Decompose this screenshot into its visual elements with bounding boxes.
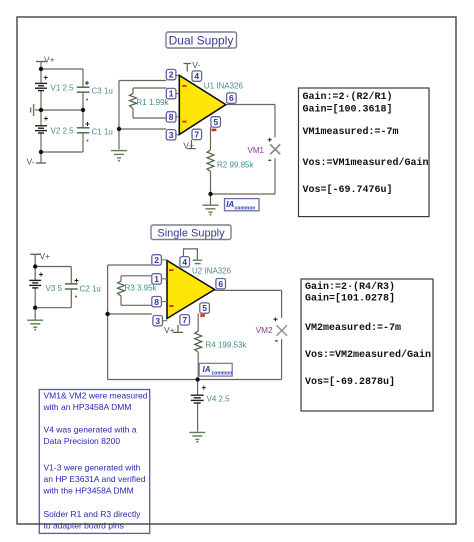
svg-text:6: 6 <box>218 279 223 289</box>
svg-text:1: 1 <box>154 274 159 284</box>
svg-text:R1 1.99k: R1 1.99k <box>137 98 170 107</box>
svg-text:VM1measured:=-7m: VM1measured:=-7m <box>303 126 399 138</box>
svg-text:C1 1u: C1 1u <box>92 128 113 137</box>
svg-text:6: 6 <box>229 93 234 103</box>
svg-text:with the HP3458A DMM: with the HP3458A DMM <box>43 486 134 496</box>
svg-text:V4 2.5: V4 2.5 <box>207 394 231 403</box>
svg-text:R3 3.95k: R3 3.95k <box>125 283 158 292</box>
svg-text:VM1& VM2 were measured: VM1& VM2 were measured <box>44 391 148 401</box>
svg-text:7: 7 <box>194 130 199 140</box>
svg-text:common: common <box>212 370 233 376</box>
svg-text:Vos:=VM1measured/Gain: Vos:=VM1measured/Gain <box>303 157 429 169</box>
svg-text:8: 8 <box>154 297 159 307</box>
svg-text:V-: V- <box>192 60 200 70</box>
svg-text:Dual Supply: Dual Supply <box>169 34 234 48</box>
svg-text:to adapter board pins: to adapter board pins <box>44 520 124 530</box>
svg-text:IA: IA <box>226 200 234 209</box>
svg-text:V+: V+ <box>183 141 194 151</box>
svg-text:VM2measured:=-7m: VM2measured:=-7m <box>305 322 401 334</box>
svg-text:V4 was generated with a: V4 was generated with a <box>44 424 137 434</box>
svg-text:Data Precision 8200: Data Precision 8200 <box>44 436 121 446</box>
svg-text:Vos=[-69.2878u]: Vos=[-69.2878u] <box>305 376 395 388</box>
svg-text:Gain=[101.0278]: Gain=[101.0278] <box>305 293 395 305</box>
svg-text:2: 2 <box>169 70 174 80</box>
svg-text:3: 3 <box>155 316 160 326</box>
svg-text:Gain:=2·(R4/R3): Gain:=2·(R4/R3) <box>305 281 395 293</box>
svg-text:Gain=[100.3618]: Gain=[100.3618] <box>303 104 393 116</box>
svg-text:U2 INA326: U2 INA326 <box>192 266 232 275</box>
svg-text:7: 7 <box>182 315 187 325</box>
svg-text:1: 1 <box>169 89 174 99</box>
svg-text:R2 99.85k: R2 99.85k <box>217 161 254 170</box>
svg-text:U1 INA326: U1 INA326 <box>204 81 244 90</box>
svg-text:V3 5: V3 5 <box>46 284 63 293</box>
svg-text:VM1: VM1 <box>248 146 265 155</box>
svg-text:5: 5 <box>202 303 207 313</box>
svg-text:5: 5 <box>213 117 218 127</box>
svg-text:C3 1u: C3 1u <box>92 86 113 95</box>
svg-text:V+: V+ <box>40 251 51 261</box>
svg-text:Solder R1 and R3 directly: Solder R1 and R3 directly <box>44 509 142 519</box>
svg-text:Single Supply: Single Supply <box>157 227 225 239</box>
svg-text:2: 2 <box>154 255 159 265</box>
svg-text:3: 3 <box>169 130 174 140</box>
svg-text:an HP E3631A and verified: an HP E3631A and verified <box>44 474 146 484</box>
svg-text:C2 1u: C2 1u <box>80 285 101 294</box>
svg-text:with an HP3458A DMM: with an HP3458A DMM <box>43 402 132 412</box>
svg-text:V-: V- <box>27 157 35 167</box>
svg-text:Vos:=VM2measured/Gain: Vos:=VM2measured/Gain <box>305 349 431 361</box>
svg-text:Gain:=2·(R2/R1): Gain:=2·(R2/R1) <box>303 91 393 103</box>
svg-text:4: 4 <box>182 257 187 267</box>
svg-text:VM2: VM2 <box>256 325 273 335</box>
svg-text:V+: V+ <box>44 55 55 65</box>
svg-text:IA: IA <box>203 365 211 374</box>
svg-text:common: common <box>235 206 256 212</box>
svg-text:V1 2.5: V1 2.5 <box>51 84 75 93</box>
svg-text:R4 199.53k: R4 199.53k <box>206 340 248 349</box>
svg-text:8: 8 <box>169 112 174 122</box>
svg-text:V2 2.5: V2 2.5 <box>51 126 75 135</box>
svg-text:4: 4 <box>194 71 199 81</box>
svg-text:Vos=[-69.7476u]: Vos=[-69.7476u] <box>303 184 393 196</box>
svg-text:V1-3 were generated with: V1-3 were generated with <box>44 462 141 472</box>
svg-text:V+: V+ <box>164 325 175 335</box>
